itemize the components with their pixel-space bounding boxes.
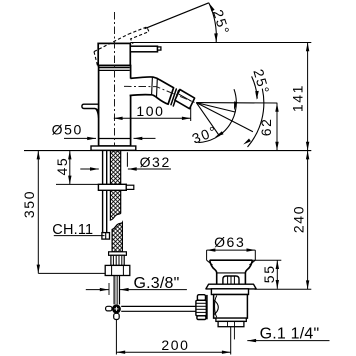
hose connector ribs (111, 255, 124, 265)
deck line (24, 150, 311, 152)
svg-text:45: 45 (54, 157, 70, 176)
spout miter lines (151, 77, 154, 95)
svg-text:200: 200 (161, 337, 189, 353)
spout (130, 77, 174, 104)
pop-up rod below deck (102, 151, 104, 233)
dimension 45 (69, 151, 71, 185)
svg-text:Ø50: Ø50 (52, 122, 83, 138)
svg-text:Ø32: Ø32 (140, 154, 171, 170)
tee valve (112, 304, 121, 313)
svg-text:55: 55 (261, 264, 277, 283)
spout swivel bands (171, 89, 176, 105)
lever 25 degree arc (209, 3, 217, 43)
spray fan lines (196, 103, 277, 136)
drain knurled nut (197, 295, 205, 301)
drain body (214, 295, 248, 319)
lever raised dashed outline (94, 27, 149, 67)
cartridge cap (98, 43, 130, 65)
faucet centerline (114, 12, 116, 150)
hose nut G3/8 (105, 265, 130, 275)
dimension 141 (307, 43, 309, 151)
faucet body (99, 66, 131, 147)
top reference line 141 (130, 42, 311, 44)
pop-up plug (223, 276, 239, 284)
extension line 240 bottom (255, 288, 312, 290)
drain sub section (216, 318, 246, 321)
dimension 350 (37, 151, 39, 274)
mounting washer plate (98, 184, 126, 190)
body groove lines (99, 67, 130, 69)
flex hose lower (112, 222, 122, 251)
hose ferrule (109, 252, 127, 256)
aerator nozzle (175, 90, 195, 109)
svg-text:G.1 1/4": G.1 1/4" (260, 326, 320, 343)
spray 25deg arcs (248, 89, 264, 147)
drain flange (206, 284, 256, 289)
svg-text:Ø63: Ø63 (214, 234, 245, 250)
dimension 55 (253, 259, 282, 261)
svg-text:62: 62 (258, 118, 274, 137)
drain upper ring (211, 289, 248, 295)
spray 30deg arc (198, 89, 236, 142)
dimension D63 (207, 249, 256, 251)
label G3/8 (86, 289, 109, 291)
label G1 1/4 (247, 340, 329, 342)
base plate (91, 146, 136, 150)
spout centerline (124, 86, 195, 102)
svg-text:350: 350 (21, 190, 37, 218)
lever angle diagonal line (145, 3, 209, 29)
svg-text:G.3/8": G.3/8" (133, 275, 179, 292)
dimension D32 (80, 168, 99, 170)
lever handle (130, 46, 157, 52)
flex hose upper (110, 151, 120, 220)
drain tail pipe (218, 321, 244, 326)
supply pipe vertical (113, 276, 115, 305)
dimension 62 (276, 103, 278, 151)
label CH.11 leader (54, 235, 105, 237)
drain flare (210, 260, 253, 284)
rod hex CH.11 (102, 233, 110, 240)
svg-text:141: 141 (290, 84, 306, 112)
svg-text:CH.11: CH.11 (52, 222, 93, 238)
dimension 240 (307, 151, 309, 290)
pop-up rod knob (82, 104, 99, 118)
dimension 100 (114, 117, 191, 119)
horizontal supply pipe (121, 305, 196, 307)
svg-text:100: 100 (136, 103, 164, 119)
dimension 200 (115, 320, 117, 355)
dimension D50 (64, 137, 96, 139)
svg-text:240: 240 (290, 205, 306, 233)
